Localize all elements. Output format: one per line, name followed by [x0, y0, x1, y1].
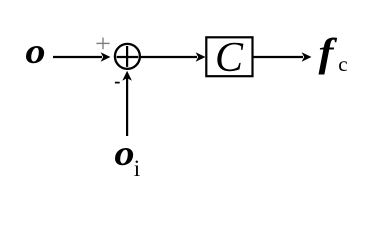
- wire: feedback o_i up into junction: [126, 77, 128, 136]
- svg-text:f: f: [319, 31, 338, 75]
- svg-text:C: C: [215, 35, 244, 81]
- svg-text:i: i: [134, 156, 140, 181]
- wire: C to output f_c: [254, 56, 304, 58]
- wire: junction to controller C: [141, 56, 198, 58]
- controller block C: [206, 37, 252, 76]
- summing junction circle: [115, 44, 140, 69]
- wire: o to summing junction: [53, 56, 102, 58]
- svg-text:c: c: [338, 52, 347, 76]
- svg-text:o: o: [25, 32, 45, 72]
- svg-text:o: o: [114, 134, 134, 174]
- plus sign label (gray): [96, 38, 109, 50]
- minus sign label: [115, 82, 120, 84]
